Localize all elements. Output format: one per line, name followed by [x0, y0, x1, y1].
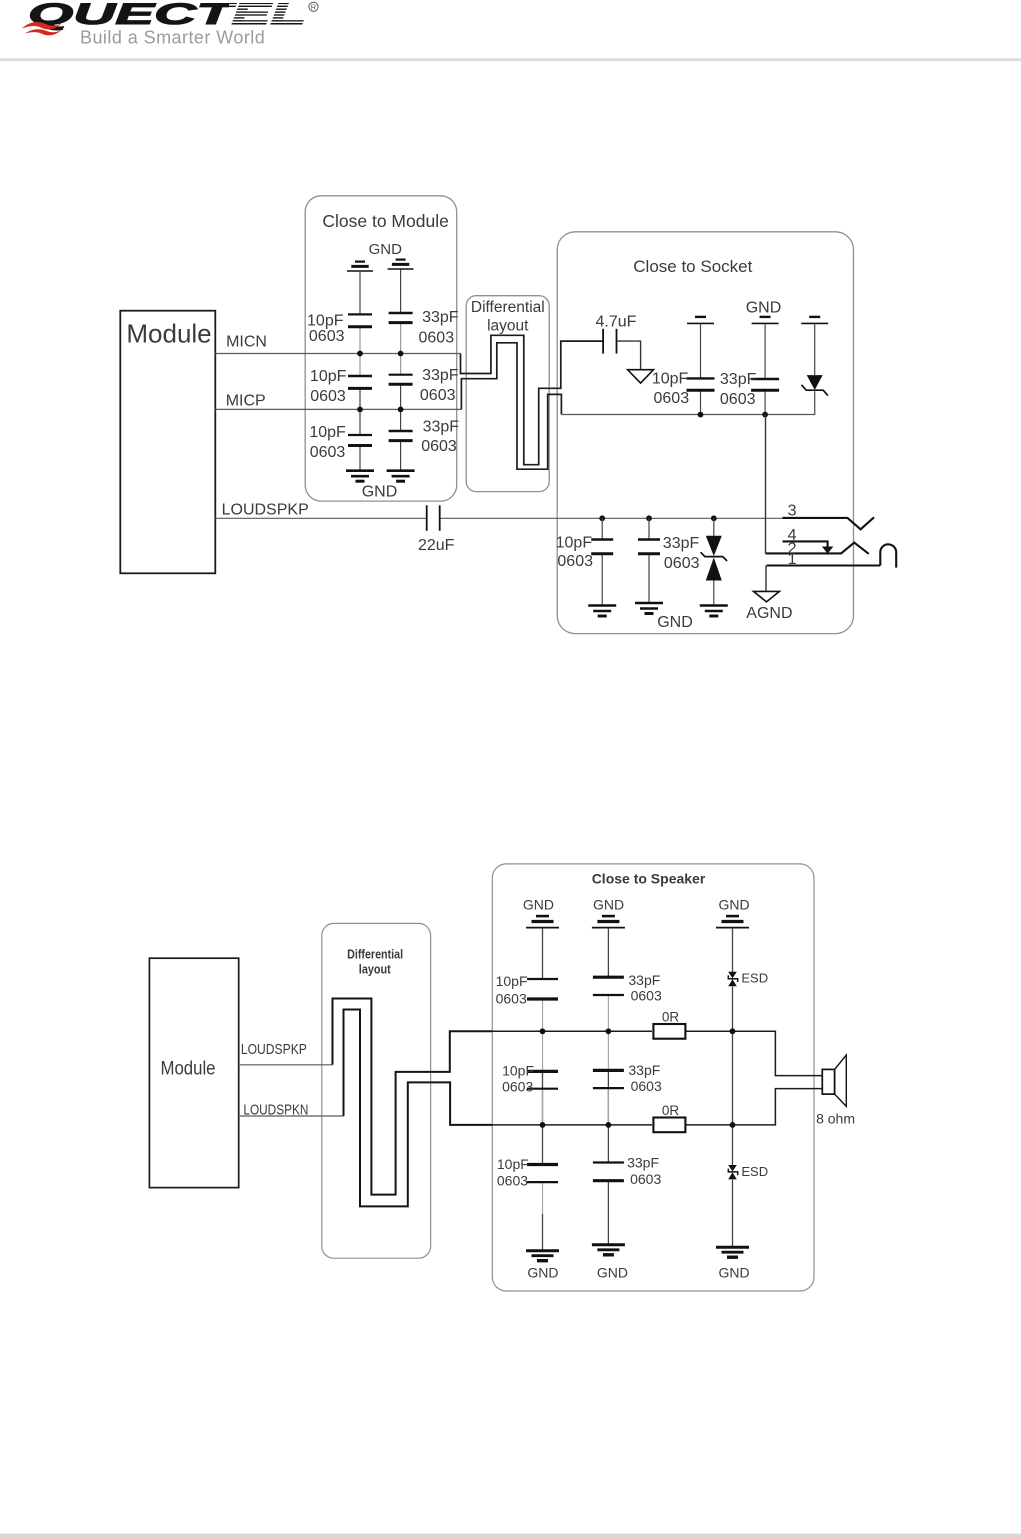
- svg-text:Build a Smarter World: Build a Smarter World: [80, 28, 265, 48]
- svg-text:0603: 0603: [497, 1172, 528, 1188]
- svg-text:10pF: 10pF: [497, 1156, 529, 1172]
- svg-text:GND: GND: [718, 1265, 749, 1281]
- svg-text:Differential: Differential: [347, 947, 403, 961]
- svg-text:3: 3: [788, 503, 797, 520]
- svg-text:GND: GND: [593, 896, 624, 912]
- svg-text:33pF: 33pF: [663, 535, 700, 552]
- svg-text:LOUDSPKP: LOUDSPKP: [241, 1041, 307, 1058]
- svg-text:0R: 0R: [662, 1103, 680, 1118]
- svg-text:Close to Socket: Close to Socket: [633, 257, 752, 276]
- svg-text:GND: GND: [597, 1265, 628, 1281]
- svg-text:10pF: 10pF: [309, 424, 346, 441]
- svg-text:GND: GND: [657, 614, 693, 631]
- svg-text:ESD: ESD: [741, 971, 768, 986]
- svg-text:0603: 0603: [631, 1078, 662, 1094]
- svg-text:33pF: 33pF: [423, 419, 460, 436]
- svg-text:0603: 0603: [310, 388, 346, 405]
- svg-text:Module: Module: [126, 319, 211, 349]
- svg-text:1: 1: [788, 551, 797, 568]
- svg-text:GND: GND: [362, 484, 398, 501]
- svg-text:33pF: 33pF: [628, 972, 660, 988]
- svg-text:LOUDSPKP: LOUDSPKP: [222, 501, 309, 518]
- svg-text:0603: 0603: [631, 987, 662, 1003]
- svg-text:10pF: 10pF: [556, 535, 593, 552]
- svg-text:layout: layout: [359, 963, 392, 977]
- svg-text:0603: 0603: [502, 1079, 533, 1095]
- svg-text:0603: 0603: [720, 391, 756, 408]
- svg-text:22uF: 22uF: [418, 537, 455, 554]
- svg-text:0603: 0603: [630, 1171, 661, 1187]
- svg-text:33pF: 33pF: [627, 1154, 659, 1170]
- svg-text:AGND: AGND: [746, 605, 792, 622]
- svg-text:MICN: MICN: [226, 333, 267, 350]
- svg-text:GND: GND: [718, 896, 749, 912]
- svg-text:GND: GND: [369, 241, 403, 258]
- svg-text:10pF: 10pF: [307, 313, 344, 330]
- svg-text:0603: 0603: [421, 438, 457, 455]
- svg-text:0603: 0603: [496, 991, 527, 1007]
- svg-text:0603: 0603: [420, 387, 456, 404]
- svg-text:Differential: Differential: [471, 299, 545, 316]
- svg-text:10pF: 10pF: [652, 371, 689, 388]
- svg-text:MICP: MICP: [226, 392, 266, 409]
- svg-text:0R: 0R: [662, 1009, 680, 1024]
- svg-text:10pF: 10pF: [496, 973, 528, 989]
- svg-text:Close to Speaker: Close to Speaker: [592, 871, 706, 887]
- svg-text:8 ohm: 8 ohm: [816, 1110, 855, 1126]
- svg-text:0603: 0603: [419, 330, 455, 347]
- svg-text:10pF: 10pF: [502, 1063, 534, 1079]
- svg-text:33pF: 33pF: [422, 367, 459, 384]
- svg-text:33pF: 33pF: [628, 1062, 660, 1078]
- svg-text:GND: GND: [746, 299, 782, 316]
- svg-text:GND: GND: [523, 896, 554, 912]
- svg-text:GND: GND: [527, 1265, 558, 1281]
- svg-text:0603: 0603: [664, 555, 700, 572]
- svg-text:0603: 0603: [309, 328, 345, 345]
- svg-text:ESD: ESD: [741, 1164, 768, 1179]
- svg-text:4.7uF: 4.7uF: [596, 314, 637, 331]
- svg-text:layout: layout: [487, 318, 529, 335]
- svg-text:R: R: [311, 3, 317, 12]
- svg-text:Module: Module: [161, 1058, 216, 1080]
- svg-text:10pF: 10pF: [310, 368, 347, 385]
- svg-text:33pF: 33pF: [720, 371, 757, 388]
- svg-text:0603: 0603: [557, 553, 593, 570]
- svg-text:33pF: 33pF: [422, 309, 459, 326]
- svg-text:0603: 0603: [654, 390, 690, 407]
- svg-text:Close to Module: Close to Module: [322, 211, 448, 231]
- svg-text:0603: 0603: [310, 444, 346, 461]
